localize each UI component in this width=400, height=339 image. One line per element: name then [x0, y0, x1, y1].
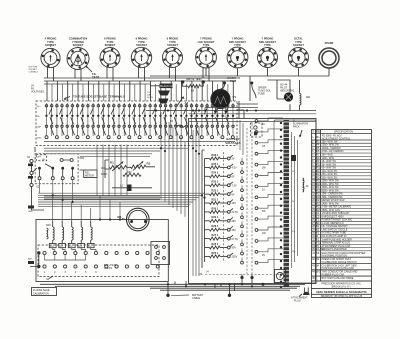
svg-text:TYPE: TYPE [234, 43, 241, 47]
wires pilot lamp [268, 80, 300, 111]
svg-text:1936 SERIES E3312-A SCHEMATIC: 1936 SERIES E3312-A SCHEMATIC [316, 290, 368, 294]
battery compartment box [189, 119, 317, 284]
battery tap resistor R33 (7.5V) [205, 181, 237, 188]
ladder dashed shaft A [223, 152, 225, 262]
svg-text:GND: GND [37, 137, 42, 139]
svg-text:R35 J: R35 J [212, 163, 219, 166]
bus wire C [44, 83, 150, 85]
battery tap resistor R30 (22.5V) [205, 207, 239, 214]
battery tap resistor R36 (3V) [205, 154, 235, 161]
center-left vertical wire bundle [161, 112, 185, 217]
switch bank contact row 2 [45, 115, 234, 117]
parts table row R1 [312, 135, 372, 141]
svg-text:BROOKLYN, N.Y.: BROOKLYN, N.Y. [332, 286, 352, 289]
svg-text:BOTTOM PLATE AND HDWE: BOTTOM PLATE AND HDWE [322, 277, 354, 280]
svg-text:CALIBRATION: CALIBRATION [33, 292, 49, 295]
battery tap resistor R25 (135V) [205, 252, 238, 259]
battery tap resistor R31 (15V) [205, 198, 237, 205]
svg-text:DRAWN BY JB CHKD CL APP 10-: DRAWN BY JB CHKD CL APP 10-2-36 [321, 295, 363, 298]
svg-text:INDICATING: INDICATING [280, 90, 294, 93]
resistor 40ohm [303, 178, 309, 192]
candohm test label [218, 77, 256, 98]
switch bank row labels [37, 106, 42, 139]
svg-text:RUBBER PLUG CAP: RUBBER PLUG CAP [322, 273, 345, 276]
svg-text:R34 J: R34 J [212, 172, 219, 175]
resistor R4 diagonal [170, 120, 185, 128]
B eliminator label [293, 120, 308, 138]
svg-text:SPARE: SPARE [325, 41, 334, 45]
svg-text:R2: R2 [147, 162, 151, 166]
terminal strip TS1 [284, 120, 290, 287]
parts table frame and header [312, 130, 372, 298]
tube socket X7 (7 PRONG) [227, 37, 248, 68]
dashed jack line J4 [205, 271, 283, 285]
svg-text:SOCKET: SOCKET [167, 43, 178, 47]
svg-text:22.5V: 22.5V [232, 211, 239, 214]
svg-text:7.5V: 7.5V [232, 184, 237, 187]
wires right of strip [292, 132, 298, 268]
svg-text:135V: 135V [232, 256, 238, 259]
tube socket X3 (6 PRONG) [100, 37, 120, 68]
FIL TEST pointer at socket X2 [85, 66, 99, 79]
battery test jacks [43, 251, 159, 273]
svg-text:R36 J: R36 J [212, 154, 219, 157]
tube socket X6 (7 PRONG) [196, 37, 217, 68]
svg-text:R26 J: R26 J [212, 243, 219, 246]
power switch S2 contact group [35, 154, 78, 189]
battery tap resistor R26 (90V) [205, 243, 237, 250]
ladder right bus wire [193, 126, 199, 276]
parts table tall rows [312, 252, 372, 281]
svg-text:BLACK CAP: BLACK CAP [160, 84, 175, 88]
line switch contacts left [27, 156, 37, 187]
svg-text:R25 J: R25 J [212, 252, 219, 255]
battery tap resistor R34 (6V) [205, 172, 235, 179]
svg-text:SOCKETS ASSORTED: SOCKETS ASSORTED [322, 248, 347, 251]
svg-text:JACKS: JACKS [104, 267, 112, 270]
svg-text:6V: 6V [232, 176, 235, 179]
svg-text:R33 J: R33 J [212, 181, 219, 184]
ballast resistors R50-R54 [49, 221, 96, 251]
attachment plug PL [291, 288, 310, 303]
svg-text:CLIPS: CLIPS [147, 97, 153, 99]
series title block [312, 290, 372, 295]
switch bank bottom bus [44, 141, 235, 143]
svg-text:R1: R1 [110, 161, 114, 165]
inner pack enclosure [274, 120, 316, 283]
svg-text:R22: R22 [127, 171, 132, 174]
svg-text:45V: 45V [232, 229, 237, 232]
battery compartment inner line [189, 121, 317, 123]
verticals grid to bundle [97, 145, 127, 197]
left margin mark 1 [28, 206, 34, 214]
battery cable label [171, 294, 204, 300]
terminal strip lugs [280, 122, 282, 283]
svg-text:CABLE: CABLE [192, 297, 201, 300]
svg-text:R29 J: R29 J [212, 216, 219, 219]
pilot lamp label [258, 84, 294, 96]
battery test compartment box [36, 220, 168, 282]
bottom bus wires [40, 282, 305, 291]
wire junction dots [52, 109, 282, 288]
switch bank enclosure (dashed) [36, 101, 237, 146]
svg-text:1W: 1W [292, 251, 295, 253]
ballast socket M1 [118, 208, 150, 231]
svg-text:SPECIFICATION: SPECIFICATION [334, 131, 353, 134]
svg-text:R30 J: R30 J [212, 207, 219, 210]
fuse lamp F1 [275, 270, 286, 283]
potentiometer R2 [131, 161, 151, 171]
tube socket X5 (6 PRONG) [163, 37, 183, 68]
svg-text:VOLTAGES: VOLTAGES [31, 91, 44, 94]
svg-text:METER: METER [85, 175, 94, 178]
svg-text:4.5V: 4.5V [232, 167, 237, 170]
grid cap clips [147, 91, 170, 104]
svg-text:IN NORMAL POSITION: IN NORMAL POSITION [322, 255, 348, 258]
svg-text:SOCKET: SOCKET [136, 43, 147, 47]
svg-text:TYPE: TYPE [264, 43, 271, 47]
svg-text:67.5V: 67.5V [232, 238, 239, 241]
svg-text:-34-: -34- [199, 273, 204, 276]
svg-text:15V: 15V [232, 202, 237, 205]
maker name block [312, 281, 372, 289]
svg-text:5%: 5% [292, 231, 295, 233]
svg-text:SOCKET: SOCKET [293, 43, 304, 47]
drawn-by block [321, 295, 363, 298]
socket label leaders [51, 44, 111, 48]
svg-text:1W: 1W [262, 232, 266, 235]
filament voltage selector switch S1 label [31, 85, 44, 94]
wires right side of grid [237, 76, 258, 155]
battery tap resistor R29 (28V) [205, 216, 237, 223]
left vertical wires from switch area [32, 147, 161, 210]
BOTTOM SOCKET CONTACT note [29, 67, 39, 74]
resistor R6 [183, 84, 204, 93]
capacitor C5 [291, 155, 296, 161]
potentiometer R1 [110, 161, 127, 172]
tube socket X8 (7 PRONG) [258, 37, 278, 68]
battery jack common dots [30, 251, 41, 268]
top cap lead (black cap) [150, 84, 175, 89]
horizontal wire bundle mid [38, 180, 205, 207]
svg-text:R27 J: R27 J [212, 234, 219, 237]
wire main horizontal y110 [146, 110, 316, 112]
battery tap resistor R32 (9V) [205, 190, 235, 197]
svg-text:PACK: PACK [293, 126, 300, 129]
tube socket X1 (4 PRONG) [41, 37, 60, 68]
svg-text:R49: R49 [46, 224, 51, 227]
selector dashed shaft [247, 124, 252, 274]
svg-text:TEST: TEST [230, 80, 237, 83]
tube socket X4 (6 PRONG) [131, 37, 151, 68]
svg-text:REF: REF [316, 131, 321, 134]
wire main horizontal y113.8 [189, 113, 317, 115]
svg-text:2W: 2W [262, 167, 266, 170]
svg-text:A2: A2 [185, 101, 189, 105]
svg-text:A3: A3 [306, 95, 310, 99]
pointer A2 [177, 96, 189, 106]
test jacks J1 J2 [181, 78, 205, 84]
svg-text:V1: V1 [233, 95, 237, 99]
svg-text:R31 J: R31 J [212, 198, 219, 201]
strip side labels [292, 171, 295, 253]
svg-text:CONTACT: CONTACT [29, 71, 39, 74]
switch bank contact row 4 [45, 136, 234, 139]
capacitor C1 [112, 185, 152, 192]
selector switch contact column [255, 118, 283, 264]
selector column circles 2 [241, 158, 244, 264]
bus wire B [44, 80, 236, 82]
wires around R1 R2 [80, 158, 156, 178]
svg-text:PLUG: PLUG [294, 299, 301, 302]
horizontal wires below switch bank [44, 148, 188, 156]
tube socket X9 (OCTAL) [289, 37, 309, 68]
tube socket X10 (SPARE) [319, 41, 339, 68]
bus wire A [44, 77, 236, 79]
svg-text:90V: 90V [232, 247, 237, 250]
ladder left bus wire [202, 150, 205, 268]
svg-text:R28 J: R28 J [212, 225, 219, 228]
wire drops into switch bank [47, 81, 233, 101]
svg-text:FIL-: FIL- [37, 116, 41, 118]
battery test label [104, 264, 117, 270]
wire y107 [205, 108, 258, 111]
left margin mark 2 [28, 258, 34, 265]
resistance value labels [262, 123, 266, 257]
parts table rows [312, 140, 372, 251]
svg-text:TUBE: TUBE [258, 93, 265, 96]
pilot lamp I1 [284, 92, 293, 101]
svg-text:TYPE: TYPE [203, 43, 210, 47]
drawing number box [32, 288, 57, 296]
battery tap resistor R35 (4.5V) [205, 163, 237, 170]
switch bank contact row 1 [45, 105, 234, 107]
jack J1 dashed box [251, 123, 263, 137]
TO TUBE SOCKET BASE TERMINALS label [64, 95, 125, 101]
battery tap resistor R27 (67.5V) [205, 234, 239, 241]
svg-text:28V: 28V [232, 220, 237, 223]
tube socket X2 (COMBINATION) [67, 37, 89, 70]
misc label -34- [199, 273, 204, 276]
svg-text:R32 J: R32 J [212, 190, 219, 193]
wire top bus to right sockets [150, 68, 329, 76]
wires socket pins to bus [48, 67, 210, 82]
resistor group label [46, 224, 51, 239]
meter shunt R21 box [84, 170, 97, 178]
battery jack strip (dashed) [38, 245, 159, 277]
resistor R5 beside lamp [300, 94, 311, 106]
jack row link wire [45, 255, 86, 260]
switch bank contact row 3 [45, 125, 234, 127]
svg-text:CALIBRATION RANGE SWITCH: CALIBRATION RANGE SWITCH [322, 261, 357, 264]
switch blade links [49, 108, 230, 135]
BATTERY VOLTAGES label [225, 137, 241, 145]
svg-text:GND: GND [28, 211, 33, 213]
bottom vertical taps [166, 282, 264, 297]
verticals bundle to battery box [53, 196, 120, 221]
battery tap resistor R28 (45V) [205, 225, 237, 232]
svg-text:HOT IF TEST: HOT IF TEST [187, 78, 203, 81]
svg-text:CAP: CAP [37, 125, 42, 128]
svg-text:9V: 9V [232, 193, 235, 196]
sub contact box [151, 242, 170, 265]
svg-text:POSITION FOR PLATE LOAD: POSITION FOR PLATE LOAD [322, 267, 355, 270]
rectifier tube V1 [211, 89, 237, 118]
switch bank column wires [47, 103, 234, 136]
resistor R22 [123, 171, 141, 177]
svg-text:VOLTAGES: VOLTAGES [225, 141, 241, 145]
svg-text:3V: 3V [232, 158, 235, 161]
S1 pointer label [46, 276, 53, 281]
